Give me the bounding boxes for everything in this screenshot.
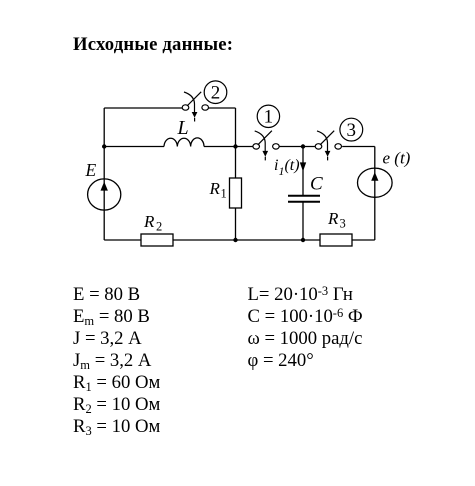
svg-text:R: R [209, 179, 221, 198]
svg-text:1: 1 [221, 187, 227, 201]
svg-text:2: 2 [156, 220, 162, 234]
svg-text:3: 3 [347, 120, 357, 141]
svg-text:L: L [177, 117, 189, 139]
svg-text:C: C [310, 174, 323, 195]
svg-text:2: 2 [211, 83, 221, 104]
svg-text:3: 3 [340, 217, 346, 231]
svg-text:1: 1 [264, 107, 274, 128]
svg-text:e (t): e (t) [383, 148, 411, 167]
svg-text:R: R [143, 212, 155, 231]
svg-text:R: R [327, 209, 339, 228]
svg-text:E: E [85, 160, 97, 180]
svg-text:i1(t): i1(t) [274, 157, 300, 178]
